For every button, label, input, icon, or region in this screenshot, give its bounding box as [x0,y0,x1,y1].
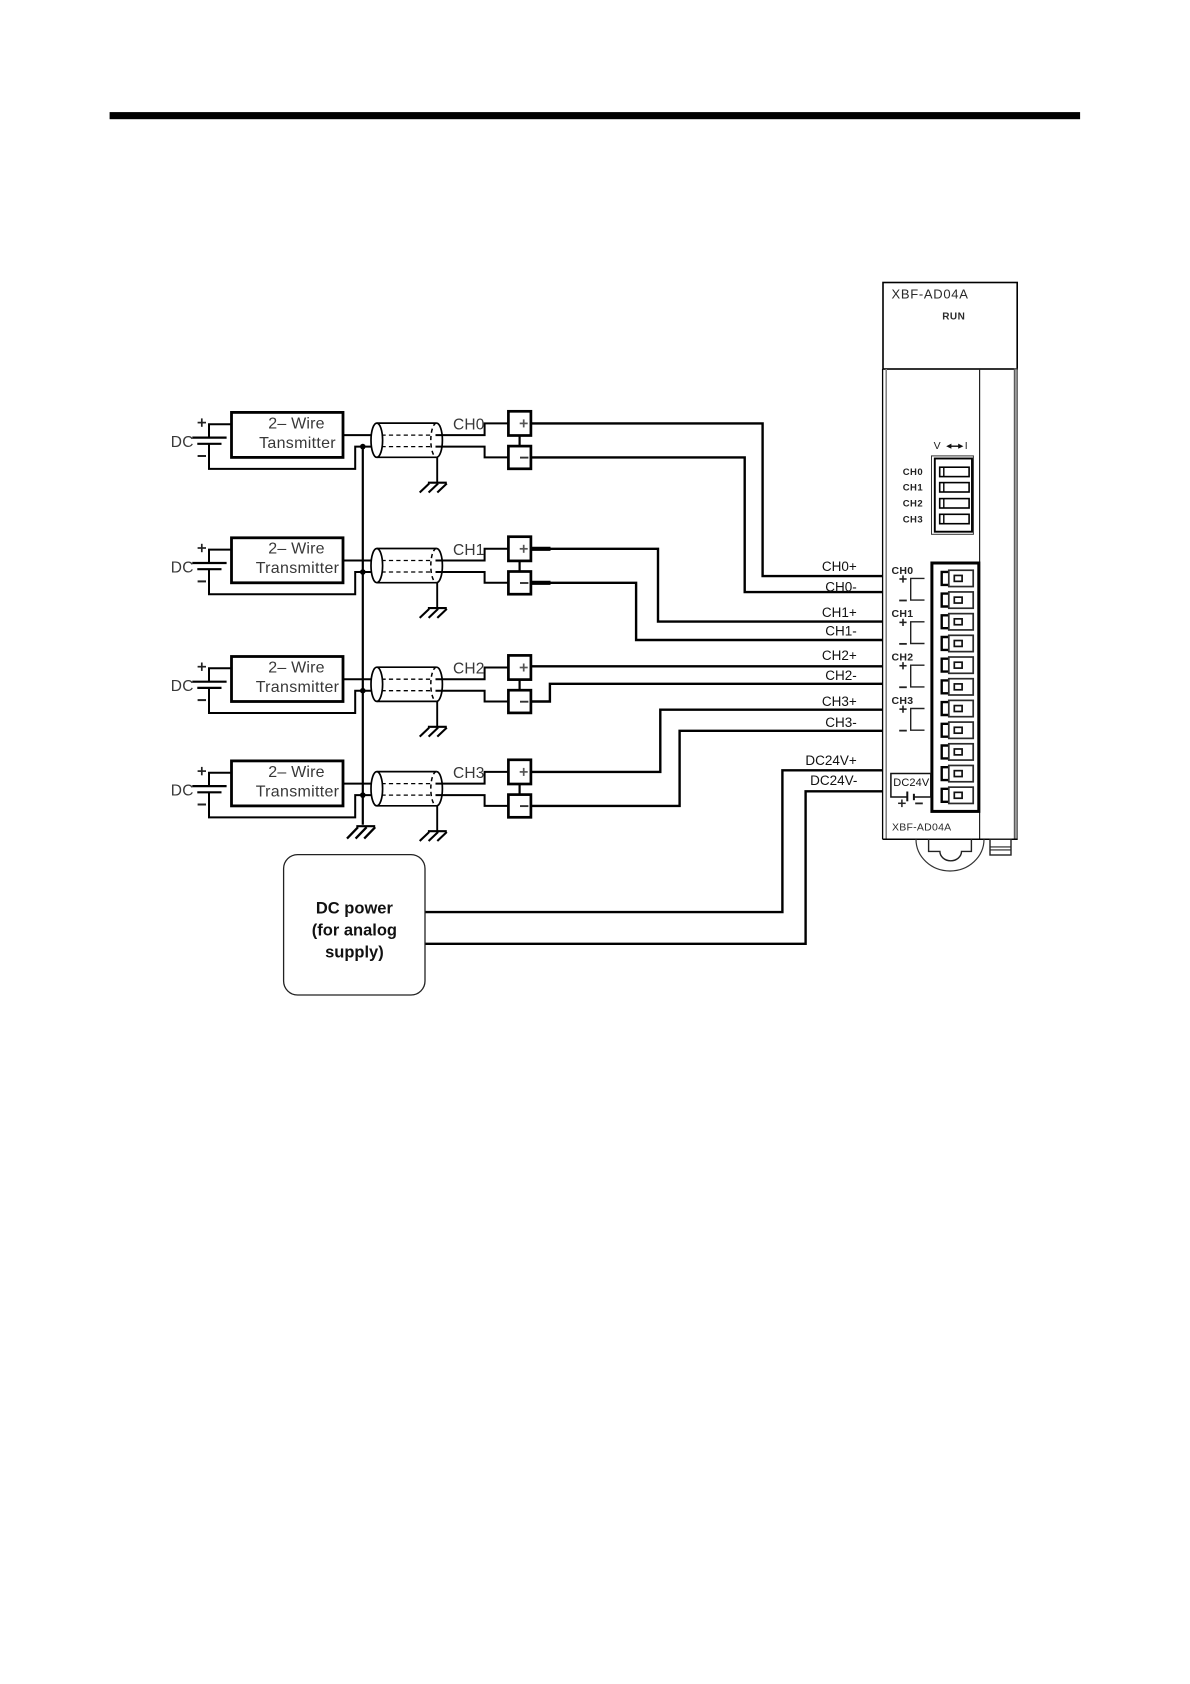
module XBF-AD04A header [883,283,1017,370]
svg-text:CH2: CH2 [453,661,485,678]
DC24V input (battery symbol) [891,774,931,808]
label module CH2 [892,652,914,688]
wire CH3- [531,731,883,806]
wire common shield bus [362,447,364,825]
terminal screw 4 [942,635,974,651]
svg-text:DC: DC [171,434,194,451]
wire CH2 signal - (cable to terminal) [436,691,509,702]
svg-text:CH3: CH3 [453,765,485,782]
svg-text:CH0-: CH0- [825,579,857,594]
wire CH2- [531,684,883,702]
wire CH1 signal + (transmitter to terminal) [343,549,508,561]
svg-text:DC24V+: DC24V+ [805,753,857,768]
svg-text:CH2-: CH2- [825,668,857,683]
svg-text:CH3: CH3 [892,695,914,707]
pin bracket CH1 (+/- terminals) [911,622,925,644]
svg-text:CH0: CH0 [892,565,914,577]
svg-text:DC power: DC power [316,900,394,918]
terminal + (CH3) [508,760,531,784]
svg-text:2– Wire: 2– Wire [268,541,325,558]
svg-text:I: I [965,440,968,452]
module bottom connector [990,839,1011,855]
shielded cable (group CH1) [371,549,442,583]
wire DC24V+ [425,770,882,912]
svg-text:CH2: CH2 [892,652,914,664]
svg-text:CH1-: CH1- [825,624,857,639]
svg-text:CH2+: CH2+ [822,648,857,663]
wire CH1+ [531,549,883,622]
terminal - (CH1) [508,572,531,595]
DIP switch CH2 [940,499,969,508]
terminal block outline [932,563,979,811]
terminal + (CH2) [508,655,531,679]
terminal screw 3 [942,614,974,630]
svg-text:Transmitter: Transmitter [256,679,340,696]
svg-text:CH1: CH1 [453,542,485,559]
svg-text:CH1: CH1 [903,483,924,494]
wire CH2 signal + (transmitter to terminal) [343,668,508,680]
svg-text:2– Wire: 2– Wire [268,659,325,676]
svg-text:XBF-AD04A: XBF-AD04A [892,822,951,834]
module body outline [883,369,1018,839]
battery DC source (group CH0) [171,418,372,469]
label V-I selector [934,440,968,452]
svg-text:Transmitter: Transmitter [256,783,340,800]
wire terminal link (CH1) [518,561,520,572]
battery DC source (group CH3) [171,767,372,818]
battery DC source (group CH1) [171,544,372,595]
ground (cable shield, group CH3) [420,806,447,841]
ground (cable shield, group CH2) [420,701,447,736]
wire DC24V- [425,791,882,944]
terminal screw 6 [942,679,974,695]
terminal - (CH0) [508,446,531,469]
V/I DIP switch block [932,456,974,534]
terminal screw 10 [942,765,974,781]
svg-text:DC: DC [171,783,194,800]
terminal screw 9 [942,744,974,760]
label module CH3 [892,695,914,731]
terminal screw 1 [942,570,974,586]
wire CH1 signal - (cable to terminal) [436,572,509,583]
module bottom clip [916,839,984,871]
terminal screw 2 [942,592,974,608]
terminal screw 7 [942,700,974,716]
svg-text:supply): supply) [325,944,384,962]
junction J2 (group CH1 return to common bus) [360,569,366,575]
shielded cable (group CH0) [371,423,442,457]
junction J3 (group CH2 return to common bus) [360,688,366,694]
svg-text:2– Wire: 2– Wire [268,415,325,432]
junction J1 (group CH0 return to common bus) [360,444,366,450]
svg-text:XBF-AD04A: XBF-AD04A [892,287,969,302]
svg-text:DC24V: DC24V [893,777,930,789]
svg-text:CH0: CH0 [453,417,485,434]
page top rule [110,112,1081,119]
svg-text:CH2: CH2 [903,499,923,510]
pin bracket CH2 (+/- terminals) [911,665,925,687]
label module CH0 [892,565,914,601]
wire terminal link (CH3) [518,784,520,795]
svg-text:CH3: CH3 [903,514,923,525]
DIP switch CH1 [940,483,969,492]
wire CH3 signal + (transmitter to terminal) [343,772,508,784]
wire terminal link (CH0) [518,436,520,447]
wire terminal link (CH2) [518,680,520,691]
terminal + (CH1) [508,537,531,561]
terminal screw 11 [942,787,974,803]
svg-text:Transmitter: Transmitter [256,560,340,577]
svg-text:RUN: RUN [942,312,965,323]
svg-text:CH1: CH1 [892,608,914,620]
svg-text:(for analog: (for analog [312,922,397,940]
svg-text:V: V [934,440,941,452]
wire CH0 signal + (transmitter to terminal) [343,423,508,435]
terminal screw 5 [942,657,974,673]
wire CH2+ [531,665,883,667]
ground (cable shield, group CH0) [420,457,447,492]
junction J4 (group CH3 return to common bus) [360,792,366,798]
svg-text:CH3+: CH3+ [822,694,857,709]
wire CH3 signal - (cable to terminal) [436,795,509,806]
svg-text:CH0: CH0 [903,467,923,478]
wire CH0+ [531,423,883,576]
svg-text:Tansmitter: Tansmitter [259,435,336,452]
transmitter TX1 (2-Wire Transmitter, CH0) [232,412,344,457]
transmitter TX4 (2-Wire Transmitter, CH3) [232,761,344,806]
terminal - (CH2) [508,690,531,713]
battery DC source (group CH2) [171,663,372,714]
wire CH3+ [531,710,883,772]
svg-text:DC: DC [171,560,194,577]
svg-text:2– Wire: 2– Wire [268,764,325,781]
svg-text:CH0+: CH0+ [822,559,857,574]
terminal + (CH0) [508,411,531,435]
transmitter TX3 (2-Wire Transmitter, CH2) [232,657,344,702]
pin bracket CH0 (+/- terminals) [911,578,925,600]
DIP switch CH3 [940,514,969,523]
wire CH0- [531,457,883,592]
svg-text:DC24V-: DC24V- [810,773,857,788]
DC power supply box (for analog supply) [284,855,425,995]
pin bracket CH3 (+/- terminals) [911,709,925,731]
wire CH0 signal - (cable to terminal) [436,447,509,458]
DIP switch CH0 [940,467,969,476]
svg-text:CH3-: CH3- [825,715,857,730]
svg-text:CH1+: CH1+ [822,605,857,620]
transmitter TX2 (2-Wire Transmitter, CH1) [232,538,344,583]
shielded cable (group CH3) [371,772,442,806]
terminal screw 8 [942,722,974,738]
terminal - (CH3) [508,795,531,818]
wire CH1- [531,583,883,640]
label module CH1 [892,608,914,644]
ground (cable shield, group CH1) [420,583,447,618]
shielded cable (group CH2) [371,667,442,701]
ground (common shield bus) [347,826,375,838]
svg-text:DC: DC [171,678,194,695]
